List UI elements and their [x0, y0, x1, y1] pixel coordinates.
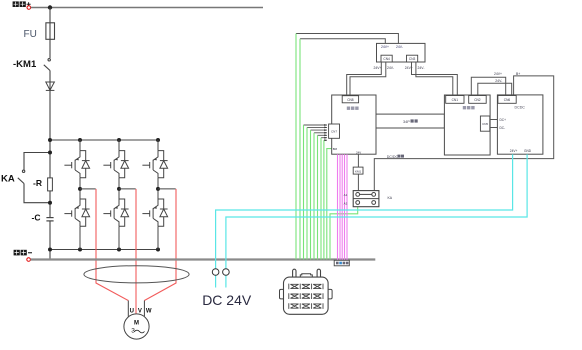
svg-text:24V+: 24V+ [374, 66, 382, 70]
transistor V4 bottom leg1 [64, 178, 89, 250]
wire DC+ link [490, 119, 498, 121]
wire motor lead stubs [128, 301, 144, 317]
fuse FU [46, 23, 55, 40]
svg-text:24V-: 24V- [396, 45, 403, 49]
connector CN4 [381, 55, 392, 62]
contactor -KM1 [44, 59, 51, 71]
connector plug J1 [280, 269, 333, 314]
wire harness green g1 [296, 34, 398, 44]
transistor V5 bottom leg2 [103, 178, 128, 250]
svg-text:DC 24V: DC 24V [202, 292, 252, 308]
wire inverter bottom rail [50, 249, 158, 251]
svg-text:B+: B+ [516, 72, 520, 76]
svg-text:W: W [146, 309, 152, 315]
svg-text:U: U [130, 309, 134, 315]
svg-text:M: M [134, 321, 139, 327]
svg-text:24V: 24V [356, 151, 361, 155]
node 电池+ terminal label [13, 1, 31, 7]
diode D1 [46, 82, 55, 90]
node phase W junction [156, 187, 176, 191]
svg-text:24V+: 24V+ [494, 72, 502, 76]
control board 控制板 [332, 95, 376, 154]
terminal DC24V plus [212, 269, 219, 276]
svg-text:BM: BM [333, 147, 338, 151]
wire B+ DCDC charge line [374, 76, 553, 193]
connector CN5 [480, 116, 489, 131]
node dots top rail [48, 138, 160, 142]
svg-text:KA: KA [1, 174, 15, 185]
connector CN2 [469, 96, 487, 104]
svg-text:KM1: KM1 [355, 169, 362, 173]
label 控制板 [347, 107, 359, 110]
wire pair top box to control board CN8 [347, 62, 386, 96]
relay KA terminals [353, 191, 379, 207]
node phase V junction [117, 187, 136, 191]
wire phase V red [135, 189, 137, 314]
patch panel 34P link [376, 114, 444, 128]
svg-text:24V-: 24V- [387, 66, 394, 70]
svg-text:24V-: 24V- [418, 66, 425, 70]
wire cyan 24V+ [216, 154, 513, 269]
svg-text:CN4: CN4 [383, 57, 390, 61]
switch KA [18, 170, 25, 183]
current sensor ring [84, 266, 189, 283]
wire KA branch [24, 153, 50, 203]
wire harness green g2 [300, 39, 385, 44]
svg-text:24V+: 24V+ [510, 149, 518, 153]
transistor V3 top leg3 [142, 140, 167, 178]
node 电池- red terminal [27, 258, 31, 262]
label pin names under top box [374, 66, 425, 70]
node junction KA bottom [48, 201, 52, 205]
fuse box KM1 [353, 167, 363, 174]
wire pair top box to driver CN1 [412, 62, 458, 96]
node junction KA top [48, 151, 52, 155]
node 电池+ red terminal [27, 6, 31, 10]
wire harness green BM [327, 149, 332, 260]
svg-text:34P: 34P [403, 120, 410, 124]
svg-text:24V+: 24V+ [381, 45, 389, 49]
wire harness magenta m1..m5 [338, 154, 348, 260]
svg-text:CN1: CN1 [452, 98, 459, 102]
junction box at bus [334, 260, 349, 266]
svg-text:KA: KA [388, 196, 393, 200]
motor M1 [124, 314, 149, 339]
svg-text:A1: A1 [344, 193, 348, 197]
wire phase U red [96, 189, 128, 301]
svg-text:24V-: 24V- [495, 79, 502, 83]
wire KM1 coil [357, 154, 359, 167]
svg-text:DC-: DC- [500, 126, 506, 130]
connector CN3 [407, 55, 418, 62]
svg-text:GND: GND [524, 149, 532, 153]
svg-text:CN7: CN7 [331, 129, 337, 133]
wire harness green g3..g8 with arrows into CN7 [304, 125, 328, 140]
svg-text:CN8: CN8 [347, 98, 354, 102]
wire phase W red [144, 189, 176, 301]
svg-text:DCDC: DCDC [515, 106, 526, 110]
resistor -R [48, 178, 53, 191]
connector CN8 [342, 96, 358, 103]
wire KM1 to relay [357, 174, 359, 192]
wire DC- link [490, 127, 498, 129]
svg-text:-KM1: -KM1 [13, 59, 37, 70]
svg-text:-R: -R [33, 178, 42, 188]
connector plug pins [289, 284, 323, 309]
connector CN6 [498, 96, 516, 104]
connector CN7 [329, 124, 340, 138]
terminal DC24V minus [223, 269, 230, 276]
label DC/DC charge wire [387, 155, 404, 159]
svg-text:FU: FU [24, 29, 37, 40]
DCDC converter [497, 95, 543, 154]
driver board 驱动板 [444, 95, 490, 155]
node dots bottom rail [48, 248, 160, 252]
wire cyan stubs below terminals [216, 275, 226, 287]
svg-text:DC+: DC+ [500, 118, 507, 122]
svg-text:CN3: CN3 [409, 57, 416, 61]
svg-text:A2: A2 [344, 201, 348, 205]
transistor V1 top leg1 [64, 140, 89, 178]
control unit top box [377, 43, 426, 62]
svg-text:CN5: CN5 [482, 122, 488, 126]
capacitor -C [46, 218, 53, 221]
wire cyan GND [226, 154, 527, 269]
wire DC+ top bus [31, 7, 263, 9]
wire DC- bottom bus [30, 258, 375, 260]
node 电池- terminal label [14, 250, 32, 256]
node junction top [48, 5, 52, 9]
wire main DC+ vertical [49, 8, 51, 260]
svg-text:CN6: CN6 [504, 98, 511, 102]
wire pair driver CN2 to DCDC CN [471, 77, 511, 95]
label 驱动板 [463, 106, 475, 109]
transistor V2 top leg2 [103, 140, 128, 178]
svg-text:DC/DC: DC/DC [387, 155, 399, 159]
transistor V6 bottom leg3 [142, 178, 167, 250]
svg-text:-C: -C [32, 213, 41, 223]
svg-text:CN2: CN2 [474, 98, 481, 102]
connector CN1 [446, 96, 464, 104]
node phase U junction [78, 187, 96, 191]
wire relay green [330, 204, 358, 259]
wire inverter top rail [50, 139, 158, 141]
